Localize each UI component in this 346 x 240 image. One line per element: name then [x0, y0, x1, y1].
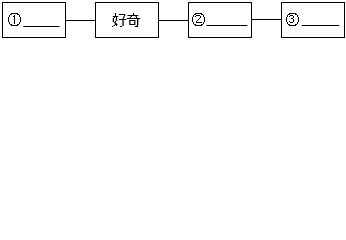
box 3 (blank ②): [189, 3, 252, 38]
wire: connector box1-box2: [66, 20, 96, 21]
circled number ①: [8, 13, 21, 26]
box 2 (好奇): [96, 3, 159, 38]
blank underline in box 3: [206, 25, 247, 26]
circled number ②: [192, 13, 205, 26]
wire: connector box2-box3: [159, 20, 189, 21]
blank underline in box 4: [302, 25, 340, 26]
character 奇: [127, 13, 140, 27]
circled number ③: [286, 13, 299, 26]
character 好: [112, 13, 126, 27]
blank underline in box 1: [23, 26, 59, 27]
wire: connector box3-box4: [252, 19, 282, 20]
box 4 (blank ③): [282, 3, 345, 38]
box 1 (blank ①): [3, 3, 66, 38]
